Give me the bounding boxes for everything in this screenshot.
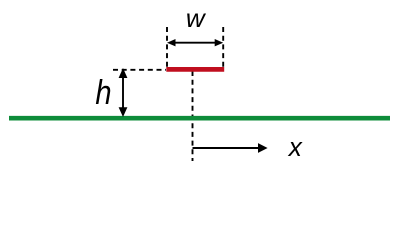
svg-text:x: x (287, 132, 304, 162)
svg-text:h: h (95, 72, 111, 111)
svg-text:w: w (186, 3, 207, 33)
dashed center line below bar (192, 71, 194, 161)
dashed extension line, left edge of bar (166, 27, 168, 67)
width arrow (double headed) (167, 39, 223, 46)
ground line (9, 116, 390, 121)
table bar (red ledge) (166, 67, 224, 72)
dashed extension line, right edge of bar (222, 27, 224, 67)
dashed reference line at bar height (113, 69, 166, 71)
x axis arrow (193, 143, 268, 153)
height arrow (double headed) (119, 68, 128, 117)
